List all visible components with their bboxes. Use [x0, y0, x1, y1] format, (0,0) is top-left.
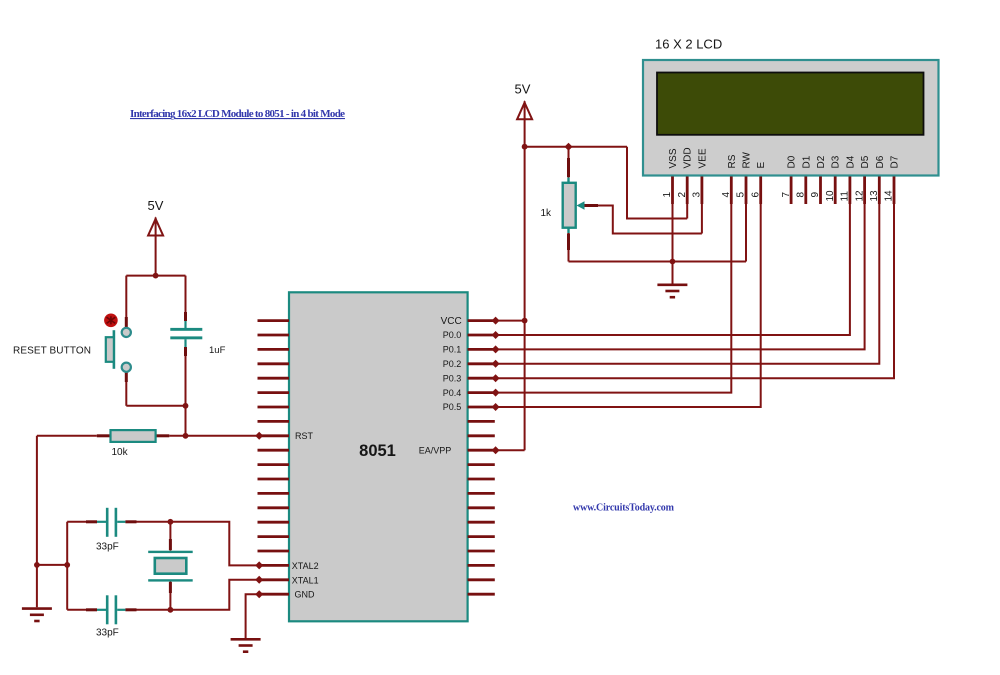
pin terminal diamond P0.2	[492, 360, 500, 368]
svg-text:33pF: 33pF	[96, 628, 119, 639]
wire 5V rail to pot top and VDD corner	[525, 146, 627, 148]
pin terminal diamond P0.5	[492, 403, 500, 411]
junction dot crystal-left column	[64, 562, 70, 568]
LCD module LCD1 body	[643, 60, 939, 176]
svg-text:P0.0: P0.0	[443, 330, 462, 340]
svg-text:RST: RST	[295, 431, 314, 441]
C1 right lead thick segment	[125, 520, 136, 523]
svg-text:1uF: 1uF	[209, 345, 226, 356]
wire LCD pin4 RS down to P0.4 row	[495, 204, 732, 393]
wire down to button top contact	[125, 276, 127, 328]
wire LCD pin13 D6 down to P0.2 row	[495, 204, 880, 364]
1uF bottom lead thick segment	[184, 347, 187, 356]
svg-text:P0.5: P0.5	[443, 402, 462, 412]
wire pot wiper to VEE: right then down then right to LCD pin 3	[583, 206, 702, 234]
svg-text:8051: 8051	[359, 442, 396, 460]
ground symbol below GND pin	[231, 639, 261, 651]
svg-text:D6: D6	[875, 155, 886, 168]
wire button bottom to cap bottom node	[126, 405, 185, 407]
LCD pin numbers 1-14	[662, 190, 895, 202]
wire left cap column vertical	[66, 522, 68, 610]
1uF top lead thick segment	[184, 312, 187, 321]
button plunger body	[106, 337, 114, 362]
wire RST row: left end to resistor and on to RST pin	[37, 435, 258, 437]
power 5V arrow (right)	[517, 103, 532, 120]
wire branch to crystal net left	[37, 564, 67, 566]
svg-text:D7: D7	[890, 155, 901, 168]
svg-text:16 X 2 LCD: 16 X 2 LCD	[655, 37, 722, 52]
wire button/cap top node horizontal	[126, 275, 185, 277]
svg-text:D1: D1	[801, 155, 812, 168]
svg-text:5V: 5V	[515, 82, 531, 97]
wire crystal bottom lead	[169, 581, 171, 609]
svg-text:VEE: VEE	[697, 148, 708, 168]
svg-text:10k: 10k	[112, 447, 129, 458]
wire LCD pin3 VEE stub down	[701, 204, 703, 234]
svg-text:VSS: VSS	[668, 148, 679, 168]
svg-text:5V: 5V	[148, 198, 164, 213]
wire LCD pin6 E down to P0.5 row	[495, 204, 761, 407]
wire 5V left arrow down to button/cap node	[155, 218, 157, 276]
svg-text:EA/VPP: EA/VPP	[419, 446, 452, 456]
potentiometer bottom teal lead	[567, 228, 569, 233]
C2 right lead thick segment	[125, 608, 136, 611]
crystal X1	[148, 551, 193, 582]
capacitor C1 33pF (top) plates	[97, 508, 125, 537]
wire button bottom contact down	[125, 372, 127, 406]
pin terminal diamond VCC	[492, 317, 500, 325]
wire LCD pin5 RW down to ground bus	[745, 204, 747, 262]
wire LCD pin11 D4 down to P0.0 row	[495, 204, 850, 335]
svg-text:VCC: VCC	[441, 316, 462, 327]
svg-text:P0.2: P0.2	[443, 359, 462, 369]
svg-text:D5: D5	[860, 155, 871, 168]
pot wiper lead thick segment	[584, 204, 598, 207]
pot top lead thick segment	[567, 158, 570, 177]
wire GND pin to ground symbol	[246, 594, 258, 638]
wire LCD pin12 D5 down to P0.1 row	[495, 204, 865, 349]
power 5V arrow (left)	[148, 219, 163, 236]
capacitor C3 1uF plates	[170, 321, 202, 347]
pin terminal diamond XTAL2	[255, 561, 263, 569]
pin terminal diamond XTAL1	[255, 576, 263, 584]
svg-text:GND: GND	[295, 590, 316, 600]
LCD pin labels VSS VDD VEE RS RW E D0-D7	[668, 147, 901, 168]
button bottom lead thick segment	[125, 372, 128, 382]
button top lead thick segment	[125, 317, 128, 327]
wire ground bus: pot bottom to LCD pin5 RW	[569, 261, 747, 263]
svg-text:XTAL2: XTAL2	[292, 561, 319, 571]
junction dot ground bus at VSS	[670, 259, 676, 265]
C1 left lead thick segment	[86, 520, 97, 523]
svg-text:RESET BUTTON: RESET BUTTON	[13, 346, 91, 357]
pin terminal diamond GND	[255, 590, 263, 598]
wire left pull-down vertical to ground	[36, 436, 38, 608]
svg-text:D3: D3	[831, 155, 842, 168]
button bottom contact	[122, 363, 131, 372]
wire XTAL1 net bottom: left to C bottom, to riser up to XTAL1 pin	[67, 580, 257, 610]
svg-text:P0.4: P0.4	[443, 388, 462, 398]
potentiometer top teal lead	[567, 178, 569, 183]
svg-text:D0: D0	[787, 155, 798, 168]
wire VDD riser: corner down then right to LCD pin 2	[627, 147, 687, 219]
8051 right pin stubs (20)	[468, 321, 495, 595]
ground symbol left (pull-down)	[22, 609, 52, 621]
svg-text:Interfacing 16x2 LCD Module to: Interfacing 16x2 LCD Module to 8051 - in…	[130, 108, 345, 120]
svg-text:1k: 1k	[540, 208, 552, 219]
wire crystal top lead	[169, 522, 171, 551]
svg-text:E: E	[756, 162, 767, 169]
svg-text:VDD: VDD	[683, 147, 694, 168]
capacitor C2 33pF (bottom) plates	[97, 595, 125, 624]
pin terminal diamond P0.1	[492, 345, 500, 353]
junction dot left vertical at crystal branch	[34, 562, 40, 568]
junction dot pot top	[565, 143, 573, 151]
C2 left lead thick segment	[86, 608, 97, 611]
svg-text:D4: D4	[845, 155, 856, 168]
wire LCD pin1 VSS down to ground bus and ground symbol	[672, 204, 674, 284]
button red cap	[104, 314, 118, 328]
junction dot 5V rail at VCC row	[522, 318, 528, 324]
svg-text:RS: RS	[727, 154, 738, 168]
junction dot RST row at cap branch	[183, 433, 189, 439]
pin terminal diamond RST	[255, 432, 263, 440]
wire LCD pin14 D7 down to P0.3 row	[495, 204, 894, 378]
potentiometer RV1 body	[563, 183, 576, 228]
pin terminal diamond P0.4	[492, 389, 500, 397]
LCD screen	[657, 73, 924, 135]
svg-text:P0.1: P0.1	[443, 345, 462, 355]
pin terminal diamond P0.0	[492, 331, 500, 339]
pin terminal diamond P0.3	[492, 374, 500, 382]
svg-text:www.CircuitsToday.com: www.CircuitsToday.com	[573, 503, 675, 514]
junction dot crystal bottom	[168, 607, 174, 613]
resistor R1 body 10k	[97, 430, 170, 442]
button plunger bar	[113, 330, 116, 369]
wire pot top lead to 5V rail	[568, 147, 570, 178]
junction dot crystal top	[168, 519, 174, 525]
svg-text:D2: D2	[816, 155, 827, 168]
svg-text:P0.3: P0.3	[443, 373, 462, 383]
junction dot 5V right rail at top horizontal	[522, 144, 528, 150]
svg-text:RW: RW	[742, 151, 753, 168]
wire cap/button node down to RST row	[185, 406, 187, 436]
svg-text:33pF: 33pF	[96, 542, 119, 553]
pot bottom lead thick segment	[567, 234, 570, 251]
button top contact	[122, 328, 131, 337]
wire 5V rail right: vertical from power arrow to EA/VPP corner	[524, 101, 526, 450]
wire VCC pin to 5V rail	[495, 320, 525, 322]
wire EA/VPP to 5V rail	[495, 449, 525, 451]
wire LCD pin2 VDD stub down	[686, 204, 688, 219]
junction dot cap bottom node	[183, 403, 189, 409]
svg-text:XTAL1: XTAL1	[292, 575, 319, 585]
8051 left pin stubs (20)	[258, 321, 290, 595]
wire XTAL2 net top: left corner to C top, to crystal, to riser	[67, 522, 257, 566]
crystal top lead thick segment	[169, 539, 172, 550]
pin terminal diamond EA/VPP	[492, 446, 500, 454]
microcontroller U1 8051 body	[289, 292, 468, 621]
wire pot bottom to ground bus	[568, 233, 570, 262]
ground symbol below VSS	[657, 285, 687, 297]
junction dot 5V left at button node	[153, 273, 159, 279]
LCD pin stubs (pins 1-14)	[673, 177, 895, 205]
crystal bottom lead thick segment	[169, 582, 172, 593]
wire cap bottom lead	[185, 347, 187, 406]
wire cap top lead	[185, 276, 187, 321]
potentiometer wiper arrow	[577, 201, 585, 210]
push button SW1 (RESET)	[104, 314, 131, 372]
